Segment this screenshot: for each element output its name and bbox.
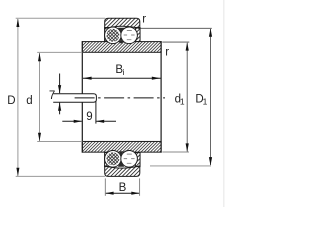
fillet label r top xyxy=(142,14,146,26)
inner ring right face line xyxy=(160,41,162,153)
dimension D1 xyxy=(141,28,213,166)
right page border xyxy=(223,0,224,207)
raceway wedge between bottom balls xyxy=(118,151,124,167)
dimension 9 xyxy=(62,102,116,124)
outer ring bottom section xyxy=(105,166,140,177)
svg-text:D: D xyxy=(7,95,15,107)
fillet label r inner xyxy=(165,47,169,59)
outer ring top section xyxy=(105,18,140,28)
dimension Bi xyxy=(83,64,161,80)
ball bottom sectioned xyxy=(105,151,122,168)
svg-text:r: r xyxy=(142,14,146,26)
ball top sectioned xyxy=(105,27,122,44)
dimension d xyxy=(26,52,82,141)
ball bottom plain xyxy=(121,151,138,168)
locating slot with rounded end xyxy=(53,94,96,103)
svg-text:7: 7 xyxy=(49,90,55,102)
dimension D xyxy=(7,18,105,176)
ball top plain xyxy=(121,27,138,44)
inner ring bottom section xyxy=(82,141,161,152)
svg-text:d: d xyxy=(26,95,32,107)
dimension 7 xyxy=(49,74,61,115)
outer ring bottom side walls xyxy=(105,153,140,167)
raceway wedge between top balls xyxy=(118,28,124,44)
outer ring top side walls xyxy=(105,28,140,42)
svg-text:B: B xyxy=(119,182,127,194)
svg-text:r: r xyxy=(165,47,169,59)
inner ring top section xyxy=(82,42,161,53)
inner ring left face line xyxy=(81,41,83,153)
centerline axis xyxy=(75,97,165,99)
dimension d1 xyxy=(162,42,189,152)
dimension B xyxy=(105,178,139,195)
svg-text:9: 9 xyxy=(86,111,92,123)
